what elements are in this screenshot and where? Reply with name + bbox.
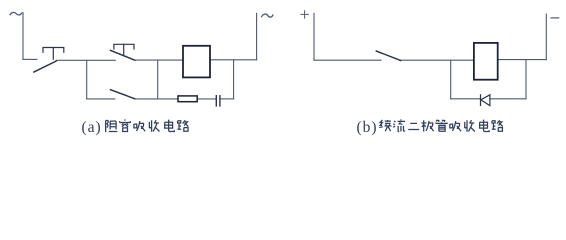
capacitor C plates bbox=[216, 95, 220, 107]
glyph 极 bbox=[421, 120, 433, 131]
wire main line between switch 1 and switch 2 bbox=[56, 59, 115, 61]
wire diode to loop bottom right bbox=[490, 98, 526, 100]
wire junction drop at x=157.7 to RC row bbox=[157, 60, 159, 99]
AC source symbol ~ left bbox=[10, 12, 22, 15]
resistor R bbox=[178, 96, 197, 102]
wire to switch (b) bbox=[314, 59, 381, 61]
glyph 收 bbox=[465, 120, 475, 132]
wire left loop drop bbox=[450, 60, 452, 99]
glyph 吸 bbox=[450, 121, 461, 131]
switch S blade (b) bbox=[376, 51, 401, 61]
svg-text:(a): (a) bbox=[82, 119, 102, 136]
glyph 管 bbox=[436, 120, 447, 132]
wire left vertical drop (b) bbox=[313, 13, 315, 60]
wire RC riser up to main line bbox=[233, 60, 235, 99]
wire right riser up to AC terminal bbox=[256, 13, 258, 60]
caption (a) chinese: 阻容吸收电路 bbox=[106, 119, 189, 132]
coil box KM (b) bbox=[474, 43, 498, 80]
switch KM2 operating bracket bbox=[114, 44, 134, 55]
wire left stub to switch QS fixed terminal bbox=[23, 58, 37, 60]
glyph 电 bbox=[480, 120, 490, 132]
caption (b) chinese: 续流二极管吸收电路 bbox=[379, 119, 502, 131]
wire left vertical drop bbox=[22, 13, 24, 60]
wire bottom branch left segment bbox=[87, 98, 115, 100]
glyph 收 bbox=[149, 120, 159, 132]
glyph 吸 bbox=[134, 121, 145, 131]
glyph 阻 bbox=[106, 121, 118, 133]
glyph 路 bbox=[177, 120, 188, 131]
wire box right to right riser bbox=[498, 59, 547, 61]
glyph 路 bbox=[492, 120, 503, 131]
switch QS1 operating bracket bbox=[43, 48, 64, 60]
wire junction drop at x=86.7 bbox=[86, 60, 88, 99]
glyph 二 bbox=[408, 123, 419, 129]
freewheeling diode VD bbox=[481, 94, 490, 106]
glyph 电 bbox=[165, 120, 175, 132]
wire loop bottom left to diode bbox=[451, 98, 481, 100]
wire switch hinge to coil box (b) bbox=[401, 59, 474, 61]
wire bottom branch hinge to resistor bbox=[135, 98, 178, 100]
glyph 流 bbox=[393, 119, 405, 131]
wire right loop riser bbox=[525, 60, 527, 99]
switch QS1 blade bbox=[34, 61, 57, 72]
wire after switch 2 hinge to coil box bbox=[135, 59, 183, 61]
glyph 容 bbox=[120, 119, 131, 131]
coil box KM (a) bbox=[183, 46, 210, 78]
svg-text:(b): (b) bbox=[357, 119, 378, 136]
wire box right to riser bbox=[210, 59, 257, 61]
DC + terminal bbox=[301, 11, 308, 18]
switch KM2 blade (top branch) bbox=[110, 50, 135, 60]
switch KM3 blade (bottom branch) bbox=[110, 90, 134, 99]
DC - terminal bbox=[551, 17, 559, 19]
wire right riser up to - terminal bbox=[545, 14, 547, 60]
AC source symbol ~ right bbox=[262, 14, 273, 17]
wire resistor to capacitor bbox=[197, 98, 216, 100]
wire capacitor to riser bbox=[220, 98, 234, 100]
glyph 续 bbox=[379, 120, 391, 131]
